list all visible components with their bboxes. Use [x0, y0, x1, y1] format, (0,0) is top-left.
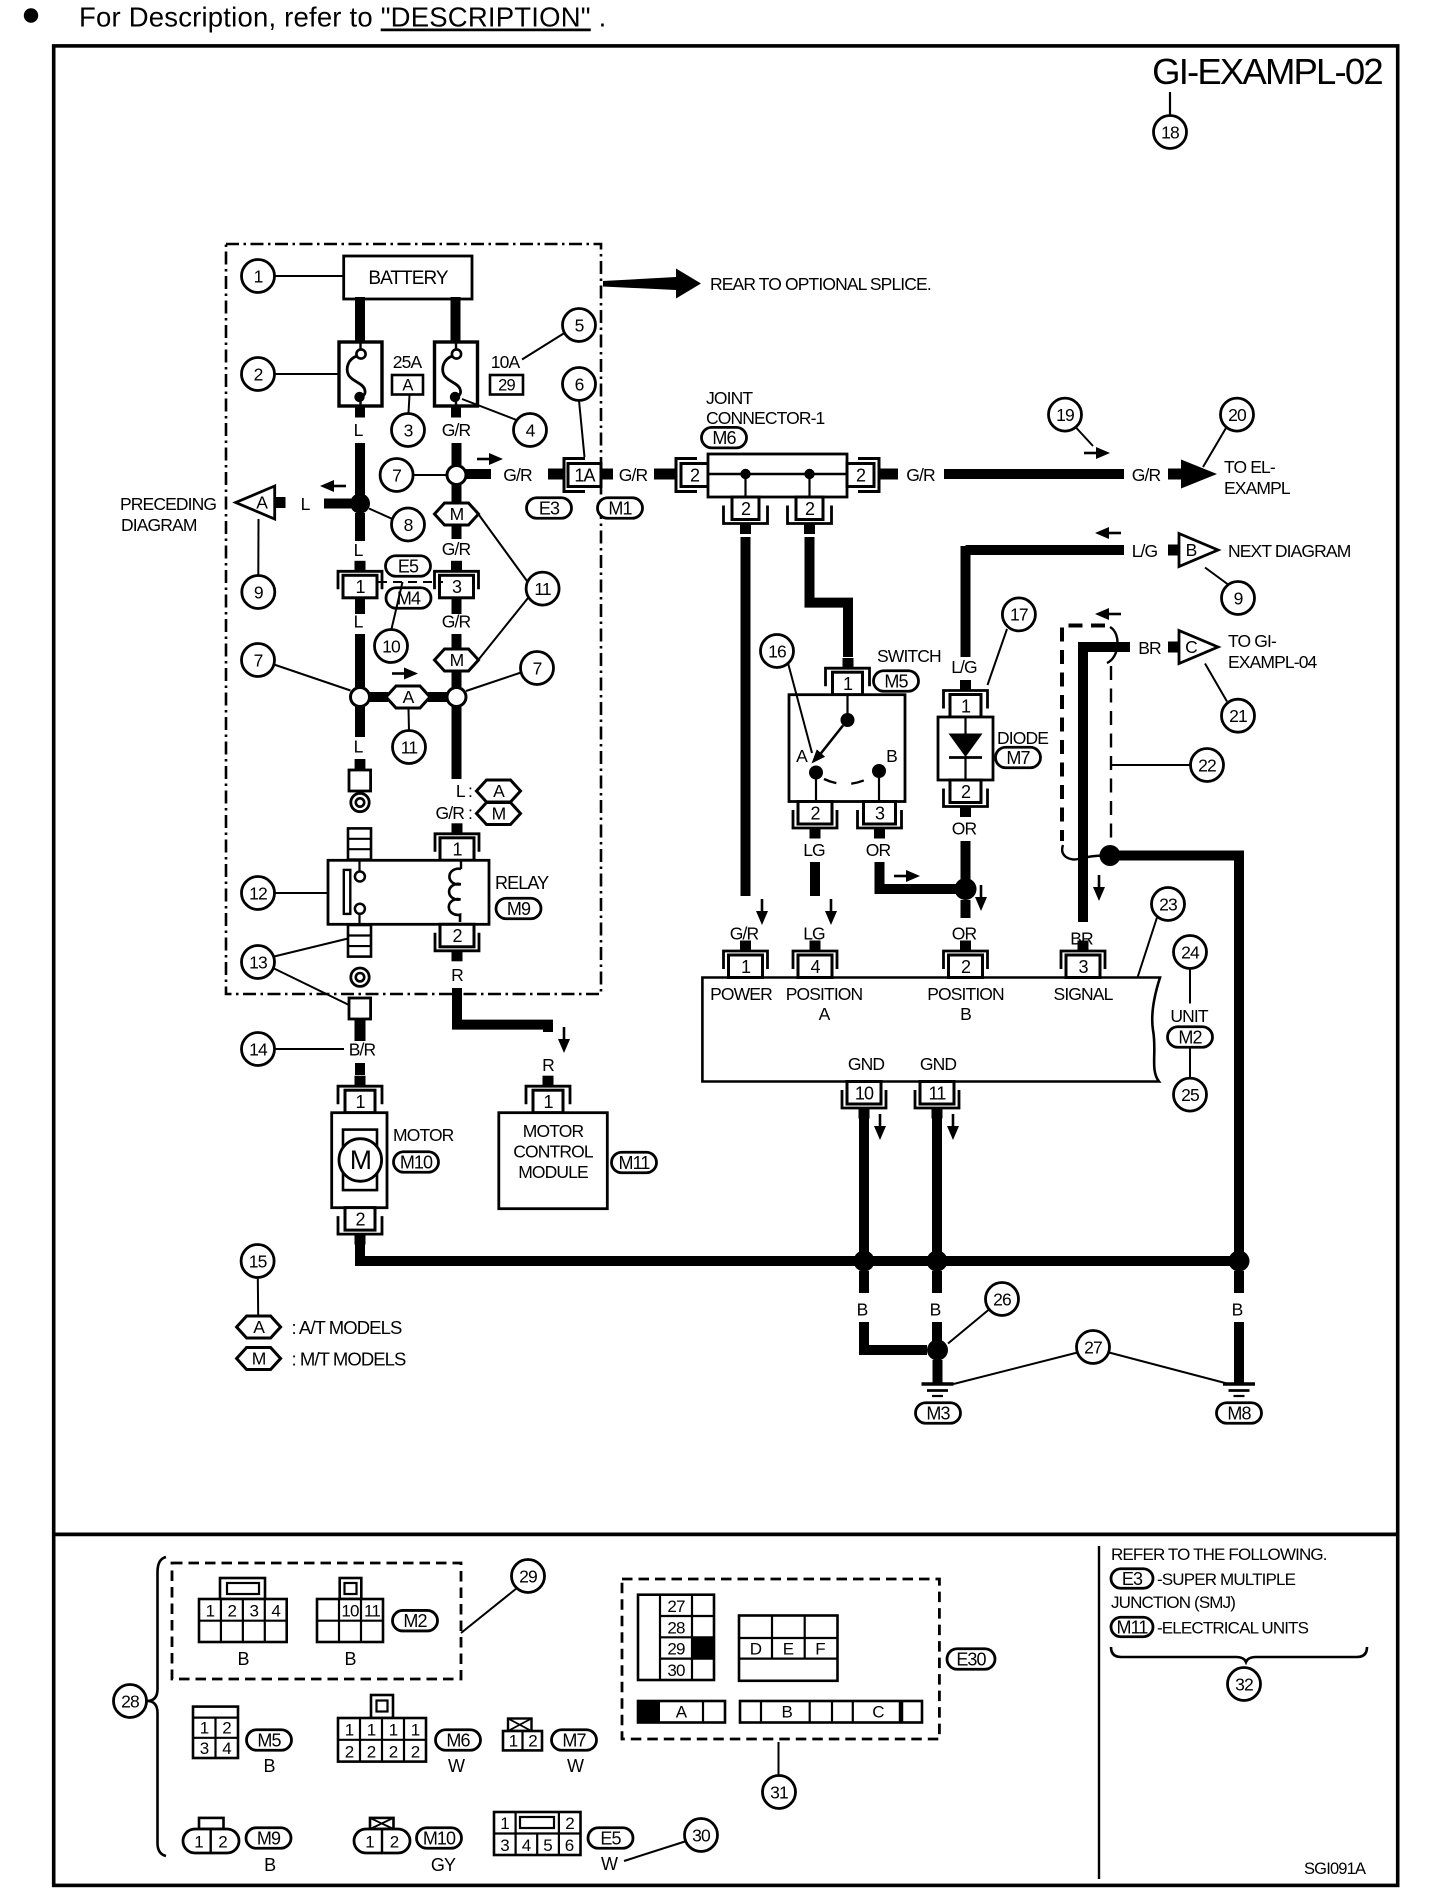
- switch contact A: [809, 766, 823, 780]
- svg-text:M1: M1: [608, 498, 632, 518]
- svg-text:W: W: [567, 1756, 584, 1776]
- flow arrow G/R: [756, 899, 768, 925]
- dashed box connector group 29: [172, 1563, 461, 1679]
- motor M body: [332, 1113, 387, 1208]
- page connector A stub: [275, 497, 286, 508]
- legend marker M: [237, 1348, 281, 1370]
- callout 15 leader: [257, 1278, 259, 1317]
- wire BR corner: [1083, 647, 1130, 922]
- svg-text:M9: M9: [507, 899, 531, 919]
- svg-text:11: 11: [929, 1083, 947, 1103]
- callout 17: [1002, 598, 1035, 631]
- svg-text:M6: M6: [446, 1730, 470, 1750]
- joint connector bottom pin 2 left: [724, 497, 768, 534]
- switch pin 2: [793, 802, 837, 839]
- wire battery to fuse F1: [355, 297, 365, 343]
- wire G/R into pin 3: [452, 561, 462, 572]
- callout 4: [514, 414, 547, 447]
- joint connector bus: [708, 473, 847, 475]
- wire hexagon to node: [428, 692, 448, 702]
- svg-text:7: 7: [254, 650, 263, 670]
- wire B to ground M3: [933, 1360, 943, 1383]
- ground splice: [927, 1340, 948, 1361]
- motor pin 2: [338, 1208, 382, 1245]
- svg-text:16: 16: [768, 641, 786, 661]
- connector label M9: [246, 1828, 291, 1849]
- svg-text:B: B: [1186, 540, 1197, 560]
- callout 3: [392, 414, 425, 447]
- svg-text:A: A: [676, 1703, 688, 1722]
- diode D1 body: [938, 717, 993, 780]
- svg-text:A: A: [253, 1317, 265, 1337]
- callout 22: [1191, 749, 1224, 782]
- svg-text:4: 4: [222, 1739, 231, 1758]
- callout 25 leader: [1189, 1048, 1191, 1079]
- svg-text:MOTOR: MOTOR: [523, 1121, 584, 1141]
- svg-text:A: A: [493, 781, 505, 801]
- svg-text:B: B: [344, 1649, 356, 1669]
- callout 25: [1174, 1078, 1207, 1111]
- callout 4 leader: [462, 399, 517, 420]
- switch pin 1: [826, 668, 870, 695]
- svg-text:10: 10: [341, 1602, 359, 1621]
- callout 2 leader: [275, 373, 340, 375]
- wire OR from switch: [880, 862, 961, 889]
- splice node (7): [351, 688, 370, 707]
- stub to 1A: [548, 469, 564, 480]
- svg-text:M: M: [492, 804, 506, 824]
- connector label M2: [393, 1610, 438, 1631]
- svg-text:A: A: [403, 687, 415, 707]
- svg-text:M5: M5: [257, 1730, 281, 1750]
- wire L to splice 8: [355, 443, 365, 503]
- flow arrow LG: [825, 899, 837, 925]
- svg-text:30: 30: [692, 1825, 711, 1845]
- svg-text:1A: 1A: [574, 466, 595, 486]
- svg-text:M5: M5: [884, 671, 908, 691]
- svg-text:OR: OR: [952, 819, 977, 839]
- svg-text:2: 2: [528, 1732, 537, 1751]
- svg-text:UNIT: UNIT: [1170, 1006, 1209, 1026]
- svg-text:32: 32: [1235, 1674, 1253, 1694]
- flow arrow OR: [975, 885, 987, 911]
- joint connector tap 2: [804, 469, 814, 479]
- joint connector body: [708, 454, 847, 497]
- svg-text:E3: E3: [539, 498, 560, 518]
- svg-text:F: F: [815, 1640, 825, 1659]
- callout 10 leader: [392, 582, 403, 629]
- svg-text:E30: E30: [956, 1649, 986, 1669]
- connector face M6: [338, 1695, 426, 1762]
- svg-text:PRECEDING: PRECEDING: [120, 494, 216, 514]
- connector face M7: [503, 1719, 542, 1751]
- svg-text:25A: 25A: [393, 352, 423, 372]
- svg-text:M: M: [450, 504, 464, 524]
- wire G/R into unit: [741, 946, 751, 951]
- svg-text:1: 1: [741, 957, 751, 977]
- unit pin 1: [724, 941, 768, 978]
- connector E5/M4 pin 3: [435, 561, 479, 598]
- wire R into module: [543, 1077, 553, 1085]
- wire GND 10 down: [859, 1118, 869, 1256]
- wire B to ground M8: [1234, 1322, 1244, 1383]
- svg-text:-ELECTRICAL UNITS: -ELECTRICAL UNITS: [1157, 1619, 1309, 1638]
- wire G/R: [452, 526, 462, 539]
- connector E5/M4 pin 1: [338, 561, 382, 598]
- wire G/R below node: [452, 707, 462, 780]
- svg-text:2: 2: [218, 1833, 227, 1852]
- svg-text:11: 11: [401, 737, 418, 757]
- connector label E5: [588, 1828, 633, 1849]
- svg-text:DIAGRAM: DIAGRAM: [121, 515, 197, 535]
- svg-text:5: 5: [543, 1836, 552, 1855]
- dashed link pins 1-3: [378, 581, 443, 583]
- svg-text:SIGNAL: SIGNAL: [1054, 984, 1114, 1004]
- strip B C: [740, 1701, 922, 1723]
- svg-text:B: B: [263, 1756, 275, 1776]
- callout 14 leader: [275, 1048, 345, 1050]
- svg-text:29: 29: [498, 377, 515, 395]
- junction: [955, 878, 977, 900]
- diode pin 1: [944, 680, 988, 717]
- wire motor to ground bus: [360, 1244, 1239, 1261]
- strip A: [638, 1701, 725, 1723]
- svg-text:2: 2: [565, 1814, 574, 1833]
- dash-dot harness box: [226, 244, 601, 994]
- svg-text:21: 21: [1229, 706, 1247, 726]
- svg-text:2: 2: [810, 803, 820, 823]
- option marker M in legend: [477, 803, 521, 825]
- svg-text:D: D: [750, 1640, 762, 1659]
- callout 16 leader: [788, 663, 812, 753]
- svg-text:2: 2: [961, 957, 971, 977]
- callout 9: [242, 576, 275, 609]
- connector face M10: [354, 1818, 410, 1853]
- callout 23 leader: [1138, 918, 1158, 978]
- callout 12: [242, 877, 275, 910]
- wire G/R: [452, 672, 462, 688]
- connector label M11: [612, 1152, 657, 1173]
- brace for group 28: [147, 1557, 166, 1856]
- svg-text:DIODE: DIODE: [997, 728, 1048, 748]
- svg-text:4: 4: [526, 420, 536, 440]
- connector face M9: [183, 1818, 239, 1853]
- svg-text:2: 2: [961, 782, 971, 802]
- svg-text:1: 1: [355, 1092, 365, 1112]
- stub into terminal box: [355, 759, 366, 770]
- svg-text:1: 1: [365, 1833, 374, 1852]
- svg-text:5: 5: [575, 315, 584, 335]
- relay pin 2: [435, 924, 479, 961]
- wire L/G down to diode: [961, 546, 971, 657]
- motor pin 1: [338, 1076, 382, 1113]
- splice node (7): [447, 688, 466, 707]
- switch pin 3: [858, 802, 902, 839]
- svg-text:19: 19: [1056, 405, 1074, 425]
- dashed box connector group E30: [622, 1579, 939, 1739]
- ground label M3: [916, 1403, 961, 1424]
- svg-text:POSITION: POSITION: [927, 984, 1004, 1004]
- svg-text:10: 10: [855, 1083, 874, 1103]
- svg-text:GND: GND: [920, 1054, 957, 1074]
- callout 26 leader: [948, 1310, 989, 1344]
- connector face E5: [494, 1812, 581, 1855]
- flow arrow R: [558, 1027, 570, 1053]
- callout 21: [1222, 699, 1255, 732]
- svg-text:POWER: POWER: [710, 984, 772, 1004]
- wire B elbow: [864, 1322, 927, 1350]
- callout 19: [1049, 398, 1082, 431]
- callout 5: [563, 309, 596, 342]
- brace for 32: [1111, 1647, 1367, 1662]
- svg-text:2: 2: [390, 1833, 399, 1852]
- wire G/R long run: [944, 469, 1124, 479]
- svg-text:1: 1: [500, 1814, 509, 1833]
- svg-text:4: 4: [522, 1836, 531, 1855]
- option marker M (M/T): [435, 649, 479, 671]
- svg-text:CONTROL: CONTROL: [513, 1142, 594, 1162]
- svg-text:JOINT: JOINT: [706, 388, 753, 408]
- svg-text:1: 1: [389, 1721, 398, 1740]
- svg-text:L: L: [301, 494, 311, 514]
- wire L below pin 1: [355, 598, 365, 614]
- connector label M6: [702, 427, 747, 448]
- svg-text:30: 30: [667, 1661, 685, 1680]
- svg-text:11: 11: [534, 579, 551, 599]
- joint connector tap 1: [740, 469, 750, 479]
- callout 15: [241, 1245, 274, 1278]
- callout 29 leader: [461, 1588, 517, 1633]
- wire G/R to node: [452, 443, 462, 465]
- svg-text:G/R: G/R: [619, 465, 648, 485]
- joint connector pin 2 right: [847, 459, 879, 492]
- svg-text:12: 12: [249, 883, 267, 903]
- svg-text:SWITCH: SWITCH: [877, 646, 941, 666]
- svg-text:15: 15: [249, 1251, 267, 1271]
- svg-text:NEXT DIAGRAM: NEXT DIAGRAM: [1228, 541, 1351, 561]
- flow arrow G/R: [477, 453, 503, 465]
- switch S1 body: [789, 695, 905, 802]
- callout 26: [986, 1283, 1019, 1316]
- connector face M2-B: [317, 1578, 383, 1642]
- svg-text:L/G: L/G: [1132, 541, 1158, 561]
- svg-text:3: 3: [1078, 957, 1088, 977]
- svg-text:MODULE: MODULE: [518, 1162, 588, 1182]
- relay contact terminals: [358, 860, 360, 871]
- wire B to splice: [932, 1322, 942, 1344]
- callout 24 leader: [1189, 969, 1191, 1004]
- svg-text:29: 29: [519, 1566, 537, 1586]
- callout 11: [526, 572, 559, 605]
- wire OR into unit: [961, 946, 971, 951]
- svg-text:For Description, refer to "DES: For Description, refer to "DESCRIPTION" …: [79, 2, 606, 33]
- junction: [350, 494, 370, 514]
- svg-text:27: 27: [1084, 1337, 1102, 1357]
- svg-text:14: 14: [249, 1039, 268, 1059]
- svg-text:28: 28: [121, 1691, 139, 1711]
- callout 28: [114, 1685, 147, 1718]
- callout 7: [521, 652, 554, 685]
- wire L/G run: [966, 545, 1125, 555]
- svg-text:G/R: G/R: [503, 465, 532, 485]
- svg-text:M6: M6: [712, 428, 736, 448]
- svg-text:L: L: [354, 737, 364, 757]
- connector label M7: [552, 1730, 597, 1751]
- legend marker A: [237, 1316, 281, 1338]
- wire L into pin 1: [355, 562, 365, 572]
- svg-text:G/R: G/R: [906, 465, 935, 485]
- svg-text:CONNECTOR-1: CONNECTOR-1: [706, 408, 825, 428]
- svg-text:31: 31: [770, 1782, 788, 1802]
- battery B1: [344, 256, 472, 299]
- section separator: [56, 1533, 1397, 1537]
- svg-text:1: 1: [367, 1721, 376, 1740]
- svg-text:29: 29: [667, 1640, 685, 1659]
- callout 22 leader: [1112, 764, 1191, 766]
- svg-text:9: 9: [1234, 588, 1243, 608]
- svg-text:GY: GY: [431, 1855, 456, 1875]
- fuse block connector upper: [348, 828, 371, 859]
- svg-text:22: 22: [1198, 755, 1216, 775]
- svg-text:TO GI-: TO GI-: [1228, 631, 1277, 651]
- splice node (7): [447, 466, 466, 485]
- svg-text:: M/T MODELS: : M/T MODELS: [292, 1349, 407, 1370]
- callout 30: [685, 1819, 718, 1852]
- svg-text:JUNCTION (SMJ): JUNCTION (SMJ): [1111, 1593, 1235, 1612]
- unit pin 3: [1061, 941, 1105, 978]
- svg-text:L/G: L/G: [951, 657, 977, 677]
- callout 20 leader: [1203, 428, 1226, 467]
- svg-text:E5: E5: [600, 1828, 621, 1848]
- callout 7: [242, 644, 275, 677]
- svg-text:L: L: [354, 540, 364, 560]
- svg-text:24: 24: [1181, 942, 1200, 962]
- wire L below fuse F1: [355, 406, 365, 418]
- callout 24: [1174, 936, 1207, 969]
- callout 7 leader: [466, 672, 523, 691]
- svg-text:M: M: [350, 1145, 371, 1175]
- unit pin 10 GND: [842, 1082, 886, 1119]
- svg-text:4: 4: [810, 957, 820, 977]
- callout 19 leader: [1076, 427, 1094, 446]
- svg-text:REAR TO OPTIONAL SPLICE.: REAR TO OPTIONAL SPLICE.: [710, 274, 931, 294]
- svg-text:EXAMPL: EXAMPL: [1224, 478, 1291, 498]
- page link arrow to EL-EXAMPL: [1168, 460, 1217, 489]
- flow arrow L/G: [1095, 527, 1121, 539]
- svg-text:E5: E5: [398, 556, 419, 576]
- svg-text:E3: E3: [1122, 1569, 1143, 1589]
- callout 6: [563, 368, 596, 401]
- wire from option splice: [1110, 856, 1239, 1257]
- page connector C (to GI-EXAMPL-04): [1179, 631, 1218, 664]
- svg-text:EXAMPL-04: EXAMPL-04: [1228, 652, 1318, 672]
- stub L to preceding diagram: [324, 499, 351, 509]
- svg-text:A: A: [796, 746, 808, 766]
- wire B/R stub: [355, 1019, 366, 1041]
- callout 31 leader: [778, 1742, 780, 1776]
- svg-text:M3: M3: [926, 1403, 950, 1423]
- svg-text:E: E: [783, 1640, 794, 1659]
- svg-text:M11: M11: [1117, 1617, 1149, 1637]
- svg-text:R: R: [542, 1055, 554, 1075]
- wire G/R from node to 1A: [465, 469, 491, 479]
- connector label M10: [417, 1828, 462, 1849]
- svg-text:M2: M2: [1178, 1027, 1202, 1047]
- svg-text:R: R: [451, 965, 463, 985]
- bus junction: [927, 1251, 948, 1272]
- callout 2: [242, 358, 275, 391]
- callout 11 leaders: [479, 515, 527, 581]
- svg-text:23: 23: [1159, 894, 1177, 914]
- callout 9 leader: [1205, 568, 1230, 586]
- svg-text:M8: M8: [1227, 1403, 1251, 1423]
- fuse block connector lower: [348, 925, 371, 957]
- unit pin 4: [793, 941, 837, 978]
- svg-text:6: 6: [565, 1836, 574, 1855]
- svg-text:G/R: G/R: [442, 420, 471, 440]
- svg-text:B/R: B/R: [349, 1040, 376, 1060]
- svg-text:28: 28: [667, 1618, 685, 1637]
- stub above switch pin1: [843, 658, 854, 669]
- svg-text:A: A: [256, 493, 268, 513]
- connector label E5 (A/T): [386, 556, 431, 577]
- callout 1: [242, 260, 275, 293]
- svg-text:10: 10: [382, 636, 401, 656]
- svg-text:RELAY: RELAY: [495, 873, 549, 893]
- connector label M5: [874, 671, 919, 692]
- svg-text:1: 1: [200, 1719, 209, 1738]
- wire node to hexagon: [368, 692, 388, 702]
- connector face M2-A: [199, 1578, 287, 1642]
- svg-text:B: B: [960, 1004, 971, 1024]
- wire G/R: [452, 634, 462, 648]
- callout 17 leader: [988, 629, 1008, 685]
- wire LG into unit: [810, 946, 820, 951]
- svg-text:27: 27: [667, 1597, 685, 1616]
- flow arrow to EL-EXAMPL: [1084, 447, 1110, 459]
- svg-text:7: 7: [533, 658, 542, 678]
- callout 10: [375, 630, 408, 663]
- wire GND 11 down: [932, 1118, 942, 1256]
- callout 32: [1228, 1668, 1261, 1701]
- callout 9: [1222, 582, 1255, 615]
- svg-text:M: M: [252, 1349, 266, 1369]
- svg-text:6: 6: [575, 374, 584, 394]
- relay coil: [460, 860, 462, 869]
- callout 8 leader: [369, 509, 394, 520]
- callout 9 leader: [257, 519, 259, 575]
- control unit body: [702, 978, 1160, 1082]
- svg-text:C: C: [1185, 637, 1197, 657]
- wire OR diode to splice: [961, 841, 971, 884]
- option marker A in legend: [477, 780, 521, 802]
- svg-text:TO EL-: TO EL-: [1224, 457, 1276, 477]
- dashed option line right: [1110, 666, 1112, 845]
- module pin 1: [526, 1076, 570, 1113]
- svg-text:2: 2: [411, 1742, 420, 1761]
- page connector A (preceding diagram): [236, 486, 275, 519]
- svg-text:: A/T MODELS: : A/T MODELS: [292, 1317, 402, 1338]
- svg-text:1: 1: [509, 1732, 518, 1751]
- motor circle: [339, 1139, 382, 1182]
- bullet: [24, 8, 38, 22]
- wire G/R jc to switch: [810, 537, 849, 657]
- svg-text:M7: M7: [1006, 748, 1030, 768]
- svg-text:3: 3: [200, 1739, 209, 1758]
- svg-text:18: 18: [1161, 122, 1179, 142]
- page connector C stub: [1168, 642, 1179, 653]
- svg-text:G/R :: G/R :: [436, 803, 472, 823]
